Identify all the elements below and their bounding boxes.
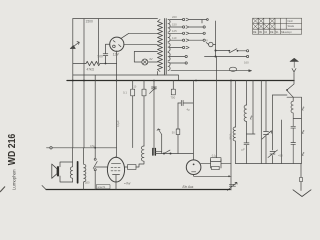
antenna top right [290,58,298,67]
wire switch line V3 [155,154,193,160]
capacitor C500 [103,44,110,63]
tap low2 [170,56,185,58]
ground fuse box [299,178,302,182]
svg-text:ℓ: ℓ [301,152,304,158]
tube V2 envelope [107,157,124,182]
dial lamp [142,59,148,65]
table X marks [253,18,275,29]
wire y51.5 heater [134,51,157,53]
svg-text:ℓ: ℓ [301,107,304,113]
output transformer secondary [84,148,86,190]
tube V1 envelope [110,37,124,51]
svg-text:750: 750 [171,96,176,100]
ladder right rail [300,97,302,163]
tap low3 [170,62,185,64]
trimmer tick C4 [150,88,156,94]
node x95 [94,147,96,149]
wire mains drop x216.5 [216,57,218,158]
selector contact b [215,56,217,58]
svg-text:anschl.: anschl. [98,185,106,189]
transformer T1 secondary humps [168,20,170,71]
node bus-x231 [230,80,232,82]
svg-text:ℓ: ℓ [249,116,252,122]
wire top rail [73,18,158,20]
resistor R5 box [176,129,180,135]
wire x178 [177,103,179,129]
wire speaker rail [52,147,116,149]
wire y63.5 right part [100,63,117,65]
tube V2 grid [111,167,120,171]
node bus-x84 [83,80,85,82]
tube table frame [253,18,302,34]
svg-text:220: 220 [172,15,177,19]
capacitor C4 [152,81,157,149]
arrow down [292,69,296,72]
wire thin upper rail y75.2 [73,75,179,81]
wire primary bottom link [157,72,159,76]
wave trap switch [288,81,295,90]
svg-text:0,1: 0,1 [123,91,127,95]
tube V2 cathode [113,175,120,182]
tube V1 cathode pin [116,51,118,64]
label box bottom [97,185,111,189]
svg-text:110: 110 [172,36,177,40]
wire x231 long [230,81,232,191]
node bus-x73 [72,80,74,82]
svg-text:4µ: 4µ [187,108,191,112]
wire V1 anode to transformer [121,33,158,38]
svg-text:V: V [206,39,208,43]
svg-text:150: 150 [172,22,177,26]
svg-text:47kΩ: 47kΩ [87,68,95,72]
tap 150 [170,26,183,28]
wire drop x246.5 [246,81,248,106]
speaker terminal [50,147,52,149]
tube V2 ground [115,182,117,190]
heater rail with fuse [171,70,249,72]
svg-text:RE: RE [270,31,274,34]
wire x161.7 [161,135,163,154]
wire lamp drop [134,52,142,63]
wire grid line y63.5 [73,63,86,65]
svg-text:ℓ: ℓ [301,130,304,136]
wire drop x253 [247,81,256,135]
ground lead [300,164,302,191]
tube V2 top pin [115,157,117,158]
voltage selector bar [215,21,217,57]
wire vertical antenna drop x73 [72,19,74,148]
bottom connector [236,163,302,165]
variable capacitor C9 [268,150,278,158]
resistor 47k zigzag [86,61,100,65]
capacitor C7 [244,143,249,164]
capacitor C12 box [211,158,221,162]
capacitor C6 [178,100,193,105]
wire V3 cathode [194,175,231,177]
coil L4 [291,101,301,126]
heater arrowhead [249,70,252,72]
tap 125 [170,32,183,34]
edge mark bottom left [0,187,5,193]
tube V2 leads [95,166,127,168]
wire R5 to switchline [177,135,179,154]
variable capacitor C13 [227,182,237,190]
svg-text:µF: µF [242,148,246,152]
mains terminal b [247,55,249,57]
resistor R8 box [128,165,137,170]
coil L2 [233,127,235,164]
transformer T1 primary zigzag [158,20,163,72]
speaker cone [52,164,57,178]
ground chevron [293,190,311,197]
node bus-x154 [153,80,155,82]
choke L1 [136,146,144,167]
svg-text:Netz: Netz [288,19,294,23]
coil L3 [244,105,246,143]
wire V1 side to transformer [124,43,158,45]
wire drop x272.5 [272,95,274,164]
capacitor C11 [291,143,296,164]
svg-text:500: 500 [98,55,104,59]
svg-text:8000: 8000 [229,133,233,139]
node bus-x196 [195,80,197,82]
variable capacitor C8 [262,131,272,139]
antenna [70,45,75,48]
switch arrow S2 [157,129,162,135]
wire coil drops right section [235,81,237,128]
capacitor C10 [291,126,296,142]
wire drop x281.5 [281,120,283,164]
svg-text:Lautspr.: Lautspr. [283,30,293,34]
node j1 [105,63,107,65]
wire drop x266 varcap [265,81,267,164]
svg-text:≈7W: ≈7W [124,182,131,186]
transformer T1 core [164,19,166,75]
svg-text:Lumophon: Lumophon [11,169,16,190]
resistor R4 box [171,89,175,95]
bottom bus end tick [42,186,46,190]
tube V3 envelope [186,160,201,175]
table rows [253,24,302,30]
ladder left rail [292,97,294,101]
output transformer core [77,162,79,183]
resistor R7 box [212,166,220,169]
mains lower lead [205,56,247,58]
wire drop x95.2 [94,75,96,158]
wire x193 anode V3 [192,81,194,154]
output transformer primary [70,148,72,182]
tap low1 [170,47,183,49]
main bus [67,80,294,82]
svg-text:1500: 1500 [86,19,94,23]
wire transformer core bottom stub [163,74,165,75]
svg-text:0,1µ: 0,1µ [212,154,218,158]
wire drop x144 [143,81,145,90]
svg-text:4V: 4V [149,57,153,61]
tap 110 [170,39,183,41]
wire drop x116.5 to V2 [116,64,118,157]
fuse [229,67,236,71]
mains terminal a [247,50,249,52]
wire V3 grid lead [201,160,231,168]
svg-text:WD 216: WD 216 [7,133,18,165]
node cathode-x229 [228,175,230,177]
tube V3 electrodes [192,171,196,173]
switch S3 contacts [163,153,165,155]
svg-text:Skala: Skala [288,24,295,28]
resistor R2 box [131,89,135,96]
svg-text:125: 125 [172,29,177,33]
capacitor C5 leads [155,151,161,153]
speaker driver bar [57,166,59,176]
svg-text:Ein Aus: Ein Aus [183,185,194,189]
tube V1 electrodes [113,41,121,48]
wire drop x259 [260,81,262,164]
tap 220 [170,19,183,21]
tube V2 anode [112,163,121,165]
speaker leads loop [60,162,73,182]
dial lamp lead [148,61,158,63]
wire vertical x98.5 [98,19,100,64]
selector plug [209,42,213,46]
svg-text:160: 160 [244,61,249,65]
resistor R4 drop [172,81,174,90]
svg-text:µ50: µ50 [85,181,90,185]
table columns [258,18,286,34]
svg-text:≈50: ≈50 [278,154,283,158]
wire vertical x84 [83,19,85,148]
capacitor C5 block [153,149,155,156]
wire x144 to choke [143,96,145,146]
svg-text:RE: RE [253,31,257,34]
ladder top [273,91,302,98]
wire drop x132.7 [132,81,134,148]
jack switch [94,158,96,160]
selector contact a [215,50,217,52]
bottom bus [46,189,230,191]
resistor R3 box [142,89,146,96]
node bus-x116 [116,80,118,82]
mains switch S1 [216,50,229,52]
svg-text:12V: 12V [113,53,120,57]
